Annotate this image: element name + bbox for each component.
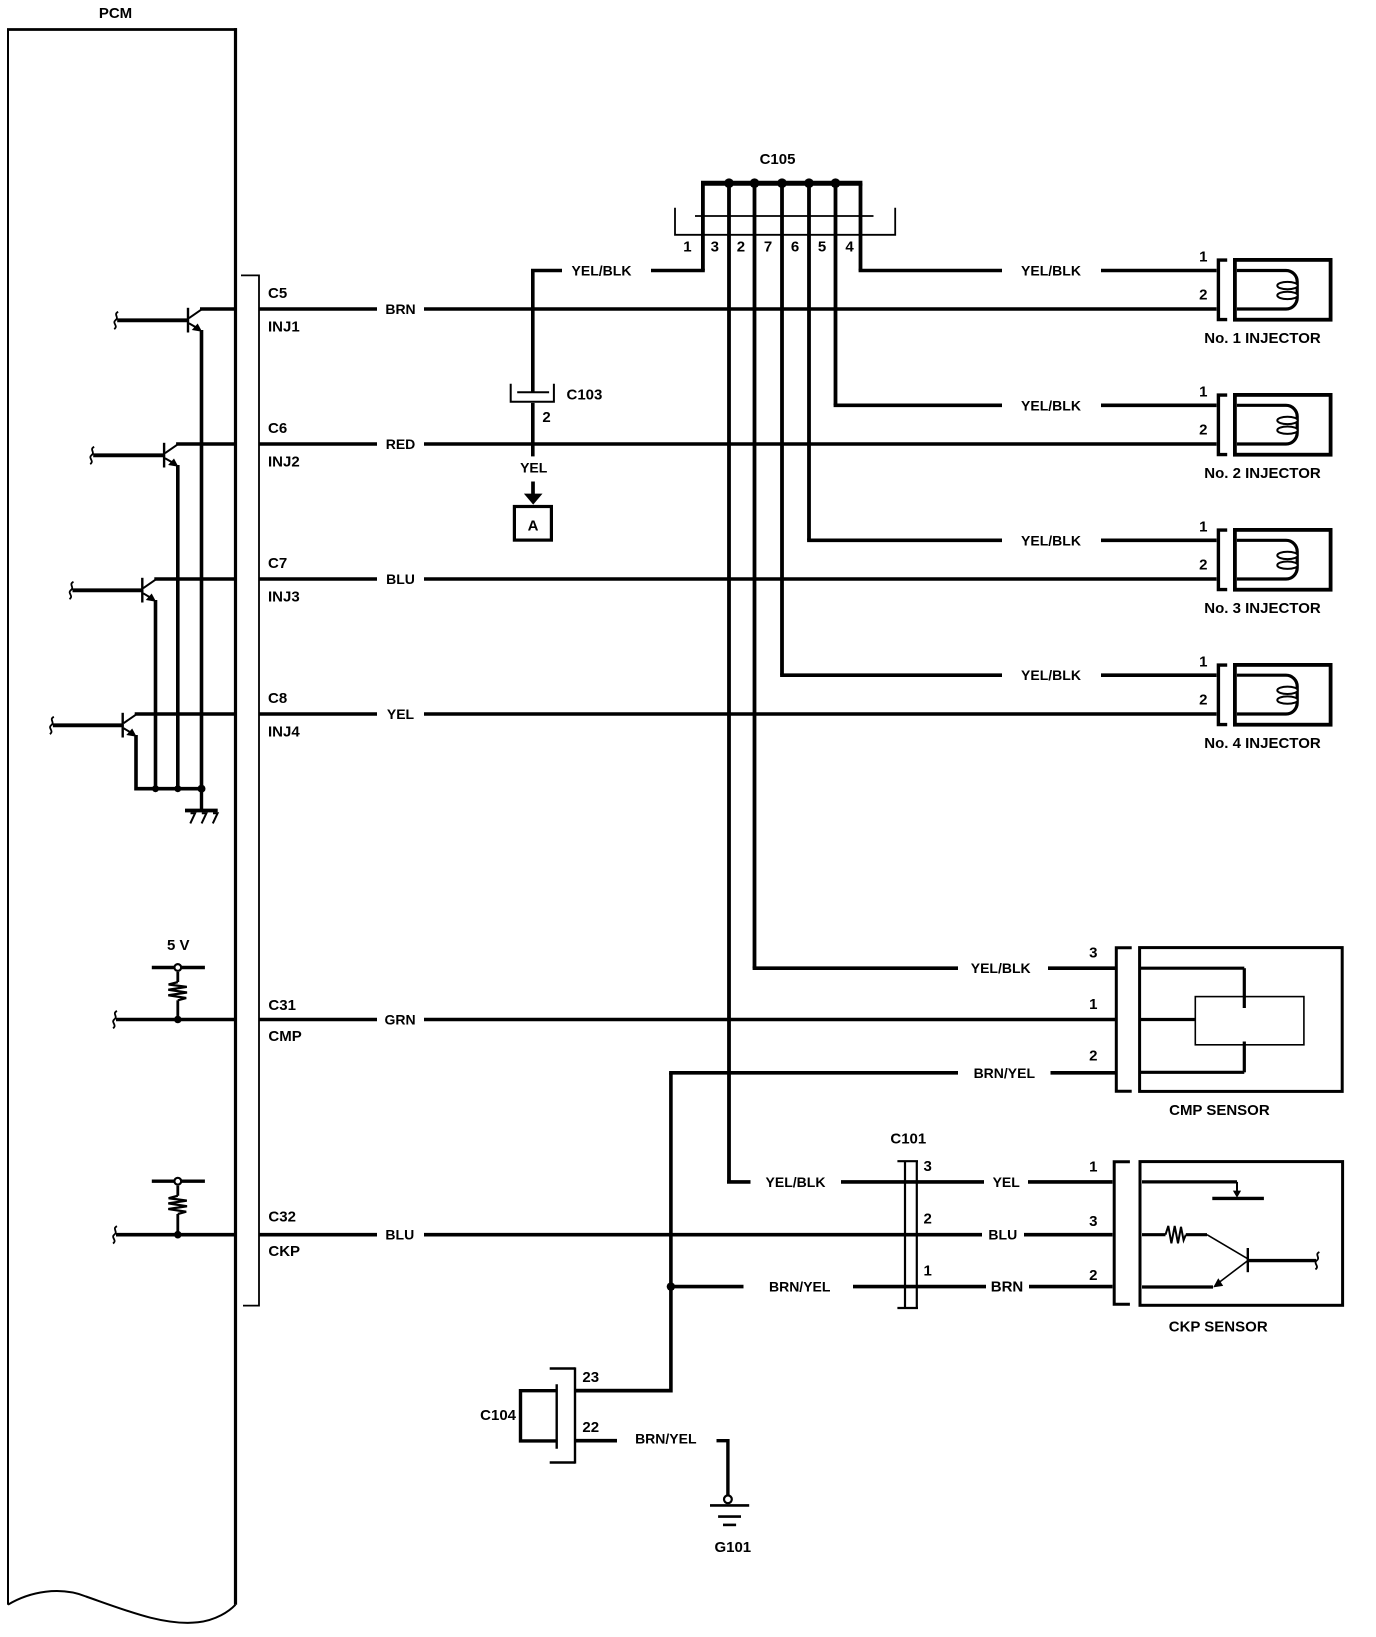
junction dot BRN/YEL trunk [667,1282,675,1290]
pin label INJ2 [268,453,300,470]
svg-text:YEL/BLK: YEL/BLK [572,263,632,279]
svg-text:G101: G101 [714,1539,751,1556]
pin label C31 [268,997,296,1014]
pin number C104-23 [582,1369,599,1386]
wire C8 YEL (PCM to injector) [259,712,1217,716]
pin label C8 [268,690,287,707]
wire C105 pin 1 vertical [701,183,705,270]
arrow to node A [524,482,543,505]
svg-text:CKP: CKP [268,1243,300,1260]
svg-text:CMP SENSOR: CMP SENSOR [1169,1102,1270,1119]
svg-text:GRN: GRN [384,1012,415,1028]
svg-text:1: 1 [1199,384,1207,401]
wire C105 pin 4 vertical [859,183,863,270]
pin label C6 [268,420,287,437]
svg-text:YEL/BLK: YEL/BLK [971,960,1031,976]
injector No.3 box [1235,530,1331,590]
wire C32 BLU (to C101) [259,1233,982,1237]
svg-text:YEL/BLK: YEL/BLK [1021,667,1081,683]
transistor Q1 (INJ1 driver) [114,308,235,333]
svg-text:PCM: PCM [99,5,132,22]
svg-text:1: 1 [1199,249,1207,266]
pin number C105-2 [737,239,745,256]
pin label CMP [268,1028,301,1045]
svg-text:2: 2 [924,1211,932,1228]
label CKP SENSOR [1169,1318,1268,1335]
wire YEL/BLK to C101 pin 3 [727,1180,984,1184]
wire YEL/BLK to injector 3 [807,538,1216,542]
label CMP SENSOR [1169,1102,1270,1119]
label G101 [714,1539,751,1556]
svg-text:INJ4: INJ4 [268,723,300,740]
pin label INJ4 [268,723,300,740]
wire C105 pin 7 vertical [780,183,784,675]
injector No.1 box [1235,260,1331,320]
svg-text:2: 2 [1199,691,1207,708]
pin number C105-1 [683,239,691,256]
svg-text:C7: C7 [268,555,287,572]
svg-text:C104: C104 [480,1407,517,1424]
label YEL/BLK (injector 4) [1021,667,1081,683]
connector bracket injector 2 [1218,395,1227,455]
CMP sensor element [1141,968,1304,1072]
wire C31 GRN (to CMP sensor) [259,1018,1115,1022]
label YEL [387,706,415,722]
wire Q3 emitter [154,600,158,789]
transistor Q3 (INJ3 driver) [70,578,236,603]
PCM module box outline [7,28,237,1623]
connector C105 face line [695,215,874,217]
wire YEL stub below C6 row [531,444,535,456]
pin numbers CKP sensor [1089,1158,1097,1284]
wire YEL/BLK to CMP pin 3 [753,966,1115,970]
wire C32 inside PCM [113,1226,236,1243]
junction dot emitter bus 2 [174,785,181,792]
label A [528,518,539,535]
svg-text:3: 3 [1089,945,1097,962]
connector bracket injector 1 [1218,260,1227,320]
wire YEL/BLK to injector 2 [834,403,1217,407]
connector C101 [897,1161,918,1308]
svg-text:1: 1 [924,1263,932,1280]
pin label C5 [268,285,287,302]
label YEL (CKP) [993,1174,1021,1190]
label C104 [480,1407,517,1424]
wire C31 inside PCM [113,1011,236,1028]
wire YEL C101 to CKP pin 1 [984,1181,1113,1183]
svg-text:YEL: YEL [520,459,548,475]
svg-text:6: 6 [791,239,799,256]
label C101 [890,1131,926,1148]
connector bracket CKP sensor [1114,1162,1130,1305]
pin label INJ1 [268,318,300,335]
svg-text:No. 2 INJECTOR: No. 2 INJECTOR [1204,465,1321,482]
coil No.4 injector [1237,675,1298,714]
wire C105 pin 5 vertical [834,183,838,405]
transistor Q4 (INJ4 driver) [50,713,236,738]
label BLU (C32) [385,1227,414,1243]
coil No.3 injector [1237,540,1298,579]
label BRN [385,301,415,317]
node A box [514,507,551,541]
injector No.4 box [1235,665,1331,725]
svg-text:BRN/YEL: BRN/YEL [769,1279,831,1295]
pin number C104-22 [582,1419,599,1436]
pin number C105-3 [711,239,719,256]
svg-text:INJ2: INJ2 [268,453,300,470]
label BLU (CKP) [988,1227,1017,1243]
transistor Q2 (INJ2 driver) [90,443,235,468]
svg-text:No. 1 INJECTOR: No. 1 INJECTOR [1204,330,1321,347]
label YEL/BLK (injector 1) [1021,263,1081,279]
CKP sensor box [1140,1162,1343,1306]
wire to G101 [717,1441,728,1496]
wire Q2 emitter [176,465,180,789]
wire C105 pin 6 vertical [807,183,811,540]
pin numbers injector 4 [1199,654,1207,709]
svg-text:2: 2 [1199,556,1207,573]
connector C104 [550,1367,575,1463]
wire BRN/YEL CMP pin 2 [669,1071,1115,1075]
svg-text:YEL/BLK: YEL/BLK [1021,397,1081,413]
pin numbers CMP sensor [1089,945,1097,1065]
CKP pickup coil internals [1142,1182,1319,1288]
svg-text:INJ3: INJ3 [268,588,300,605]
svg-text:CMP: CMP [268,1028,301,1045]
wire C7 BLU (PCM to injector) [259,577,1217,581]
svg-text:7: 7 [764,239,772,256]
pin label CKP [268,1243,300,1260]
svg-text:4: 4 [845,239,854,256]
label C103 [567,387,603,404]
svg-text:YEL: YEL [993,1174,1021,1190]
wire C105 pin 3 vertical [727,183,731,1182]
svg-text:YEL/BLK: YEL/BLK [1021,532,1081,548]
svg-text:C5: C5 [268,285,287,302]
pin numbers injector 2 [1199,384,1207,439]
pin label INJ3 [268,588,300,605]
label YEL/BLK (left) [572,263,632,279]
svg-text:2: 2 [1089,1267,1097,1284]
label YEL/BLK (CKP) [766,1174,826,1190]
svg-text:1: 1 [1089,996,1097,1013]
svg-text:YEL/BLK: YEL/BLK [766,1174,826,1190]
svg-text:22: 22 [582,1419,599,1436]
label YEL [520,459,548,475]
svg-text:C32: C32 [268,1209,296,1226]
svg-text:BRN/YEL: BRN/YEL [974,1065,1036,1081]
connector C105 shell bracket [675,208,895,235]
resistor R2 (5V pull-up CKP) [152,1178,205,1239]
wire YEL/BLK to injector 4 [780,673,1216,677]
svg-text:C105: C105 [760,151,796,168]
svg-text:C101: C101 [890,1131,926,1148]
label No. 4 INJECTOR [1204,735,1321,752]
pin number C105-6 [791,239,799,256]
svg-text:A: A [528,518,539,535]
svg-text:5: 5 [818,239,826,256]
wire C101 pin23 row (trunk to C104) [576,1389,671,1393]
svg-text:1: 1 [683,239,691,256]
label BRN/YEL (CMP) [974,1065,1036,1081]
wire C105 pin 2 vertical [753,183,757,968]
label YEL/BLK (injector 2) [1021,397,1081,413]
svg-text:No. 4 INJECTOR: No. 4 INJECTOR [1204,735,1321,752]
capacitor C104 element [521,1384,557,1449]
wire BRN/YEL to C101 pin 1 [669,1285,986,1289]
label YEL/BLK (CMP) [971,960,1031,976]
svg-text:C8: C8 [268,690,287,707]
label RED [386,436,416,452]
wire C103 lead (YEL/BLK down) [531,271,535,392]
svg-text:3: 3 [1089,1213,1097,1230]
label C105 [760,151,796,168]
wire 22 BRN/YEL [576,1439,617,1443]
connector bracket CMP sensor [1116,948,1131,1092]
wire C5 BRN (PCM to injector) [259,307,1217,311]
svg-text:1: 1 [1199,519,1207,536]
wire BRN C101 to CKP pin 2 [1029,1285,1113,1289]
injector No.2 box [1235,395,1331,455]
svg-text:5 V: 5 V [167,937,190,954]
coil No.2 injector [1237,405,1298,444]
svg-text:2: 2 [1199,286,1207,303]
pin number C103-2 [542,409,550,426]
label GRN [384,1012,415,1028]
5V terminal and label 5 V [167,937,190,954]
svg-text:BRN/YEL: BRN/YEL [635,1431,697,1447]
junction dot emitter bus 1 [152,785,159,792]
wire BRN/YEL trunk [576,1073,671,1391]
svg-text:C103: C103 [567,387,603,404]
wire Q4 emitter / emitter bus [136,735,202,789]
coil No.1 injector [1237,271,1298,310]
connector bracket injector 4 [1218,665,1227,725]
svg-text:CKP SENSOR: CKP SENSOR [1169,1318,1268,1335]
pin label C7 [268,555,287,572]
svg-text:3: 3 [711,239,719,256]
junction dots C105 bus [724,178,840,188]
ground G101 symbol [710,1495,749,1525]
junction dot emitter bus 3 [198,785,206,793]
PCM connector pin strip [241,275,259,1305]
label YEL/BLK (injector 3) [1021,532,1081,548]
wire YEL/BLK (C105 pin1 to C103) [531,269,705,273]
svg-text:2: 2 [542,409,550,426]
wire BLU C101 to CKP pin 3 [1024,1233,1113,1237]
connector C105 bus bar [701,181,862,186]
wire Q1 emitter [200,330,204,789]
svg-text:23: 23 [582,1369,599,1386]
wire C103 to C6 row (YEL) [531,403,535,444]
label No. 2 INJECTOR [1204,465,1321,482]
pin numbers C101 [924,1158,932,1280]
svg-text:BRN: BRN [991,1279,1024,1296]
label BRN/YEL (G101) [635,1431,697,1447]
svg-text:C6: C6 [268,420,287,437]
connector bracket injector 3 [1218,530,1227,590]
svg-text:YEL: YEL [387,706,415,722]
label No. 1 INJECTOR [1204,330,1321,347]
svg-text:3: 3 [924,1158,932,1175]
label BRN/YEL (CKP) [769,1279,831,1295]
label PCM [99,5,132,22]
svg-text:INJ1: INJ1 [268,318,300,335]
svg-text:BLU: BLU [385,1227,414,1243]
label BRN (CKP) [991,1279,1024,1296]
wire C6 RED (PCM to injector) [259,442,1217,446]
capacitor C103 [511,384,554,402]
wire YEL/BLK to injector 1 [859,269,1217,273]
label BLU [386,571,415,587]
svg-text:YEL/BLK: YEL/BLK [1021,263,1081,279]
pin number C105-7 [764,239,772,256]
pin numbers injector 1 [1199,249,1207,304]
svg-text:No. 3 INJECTOR: No. 3 INJECTOR [1204,600,1321,617]
CMP sensor box [1140,948,1343,1092]
svg-text:2: 2 [1089,1047,1097,1064]
svg-text:BLU: BLU [386,571,415,587]
svg-text:2: 2 [1199,421,1207,438]
svg-text:BRN: BRN [385,301,415,317]
pin label C32 [268,1209,296,1226]
svg-text:1: 1 [1089,1158,1097,1175]
label No. 3 INJECTOR [1204,600,1321,617]
pin numbers injector 3 [1199,519,1207,574]
svg-text:1: 1 [1199,654,1207,671]
svg-text:2: 2 [737,239,745,256]
svg-text:RED: RED [386,436,416,452]
pin number C105-5 [818,239,826,256]
resistor R1 (5V pull-up CMP) [152,964,205,1023]
ground (PCM internal) [185,789,218,824]
svg-text:C31: C31 [268,997,296,1014]
svg-text:BLU: BLU [988,1227,1017,1243]
pin number C105-4 [845,239,854,256]
